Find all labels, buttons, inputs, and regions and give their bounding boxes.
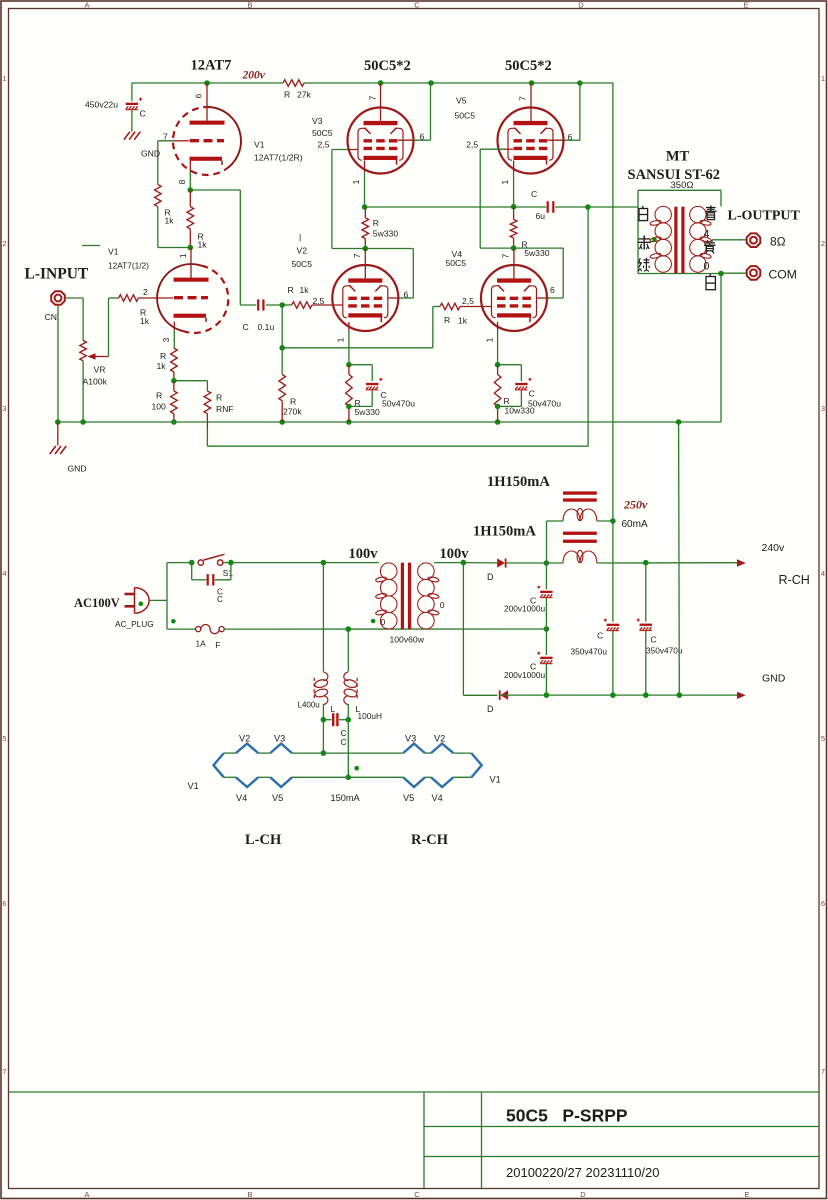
- svg-text:27k: 27k: [297, 90, 312, 100]
- svg-text:V5: V5: [272, 793, 283, 803]
- svg-text:50v470u: 50v470u: [382, 399, 415, 409]
- svg-text:200v: 200v: [242, 70, 266, 82]
- svg-text:CN: CN: [45, 312, 57, 322]
- svg-text:7: 7: [2, 1067, 6, 1076]
- svg-text:R: R: [288, 285, 294, 295]
- svg-text:100uH: 100uH: [358, 711, 382, 721]
- svg-text:350v470u: 350v470u: [571, 647, 608, 657]
- svg-text:F: F: [215, 640, 220, 650]
- svg-text:6: 6: [194, 93, 204, 98]
- svg-text:C: C: [414, 1190, 420, 1199]
- svg-text:C: C: [651, 635, 657, 645]
- svg-text:12AT7: 12AT7: [191, 58, 232, 74]
- svg-text:5w330: 5w330: [524, 248, 550, 258]
- svg-text:C: C: [531, 189, 537, 199]
- svg-text:450v22u: 450v22u: [85, 100, 118, 110]
- svg-text:R: R: [290, 397, 296, 407]
- svg-text:GND: GND: [141, 149, 160, 159]
- svg-text:50C5*2: 50C5*2: [505, 58, 552, 74]
- svg-text:4: 4: [2, 569, 6, 578]
- svg-text:4: 4: [821, 569, 825, 578]
- svg-text:R: R: [284, 90, 290, 100]
- svg-text:|: |: [299, 232, 301, 242]
- svg-text:A: A: [84, 1190, 89, 1199]
- svg-text:5: 5: [2, 734, 6, 743]
- svg-text:L-OUTPUT: L-OUTPUT: [728, 208, 801, 223]
- svg-text:1k: 1k: [198, 240, 208, 250]
- svg-text:C: C: [414, 1, 420, 10]
- svg-text:E: E: [743, 1, 748, 10]
- svg-text:2,5: 2,5: [318, 140, 330, 150]
- svg-text:C: C: [341, 737, 347, 747]
- svg-text:350v470u: 350v470u: [646, 646, 683, 656]
- svg-text:V4: V4: [432, 793, 443, 803]
- svg-text:1H150mA: 1H150mA: [473, 524, 536, 540]
- svg-text:2: 2: [2, 239, 6, 248]
- svg-text:D: D: [487, 704, 494, 714]
- svg-text:1k: 1k: [157, 361, 167, 371]
- svg-text:B: B: [247, 1, 252, 10]
- svg-text:R: R: [444, 315, 450, 325]
- svg-text:1: 1: [484, 337, 494, 342]
- svg-text:3: 3: [2, 404, 6, 413]
- svg-text:8: 8: [177, 179, 187, 184]
- svg-text:V1: V1: [188, 781, 199, 791]
- svg-text:B: B: [247, 1190, 252, 1199]
- svg-text:V1: V1: [254, 140, 265, 150]
- svg-text:R: R: [504, 396, 510, 406]
- svg-text:4: 4: [704, 229, 710, 241]
- svg-text:7: 7: [367, 95, 377, 100]
- svg-text:20100220/27 20231110/20: 20100220/27 20231110/20: [506, 1165, 660, 1180]
- svg-text:R-CH: R-CH: [411, 832, 449, 848]
- svg-text:7: 7: [501, 253, 511, 258]
- svg-text:1: 1: [2, 74, 6, 83]
- svg-text:C: C: [217, 594, 223, 604]
- svg-text:V2: V2: [239, 734, 250, 744]
- svg-text:7: 7: [517, 96, 527, 101]
- svg-text:200v1000u: 200v1000u: [504, 604, 545, 614]
- svg-text:7: 7: [163, 132, 168, 142]
- svg-text:150mA: 150mA: [331, 793, 361, 803]
- svg-text:V5: V5: [403, 793, 414, 803]
- svg-text:12AT7(1/2R): 12AT7(1/2R): [254, 153, 303, 163]
- svg-text:R: R: [373, 218, 379, 228]
- svg-text:6: 6: [2, 899, 6, 908]
- svg-text:0: 0: [440, 600, 445, 610]
- svg-text:2,5: 2,5: [462, 296, 474, 306]
- svg-text:50C5*2: 50C5*2: [364, 58, 411, 74]
- svg-text:V5: V5: [456, 96, 467, 106]
- svg-text:COM: COM: [769, 267, 797, 281]
- svg-text:2: 2: [143, 287, 148, 297]
- svg-text:V3: V3: [405, 734, 416, 744]
- svg-text:100v: 100v: [349, 546, 379, 562]
- svg-text:1k: 1k: [165, 216, 175, 226]
- svg-text:2,5: 2,5: [466, 139, 478, 149]
- svg-text:270k: 270k: [283, 407, 302, 417]
- svg-text:1k: 1k: [458, 316, 468, 326]
- svg-text:V1: V1: [108, 247, 119, 257]
- svg-text:50C5: 50C5: [455, 111, 476, 121]
- svg-text:AC100V: AC100V: [74, 596, 120, 610]
- svg-text:R-CH: R-CH: [779, 573, 810, 587]
- svg-text:100v: 100v: [440, 546, 470, 562]
- svg-text:L-INPUT: L-INPUT: [25, 265, 89, 282]
- svg-text:50C5: 50C5: [446, 258, 467, 268]
- svg-text:1: 1: [821, 74, 825, 83]
- svg-text:D: D: [487, 572, 494, 582]
- svg-text:1: 1: [351, 179, 361, 184]
- svg-text:100v60w: 100v60w: [390, 635, 425, 645]
- svg-text:6: 6: [404, 289, 409, 299]
- svg-text:3: 3: [821, 404, 825, 413]
- svg-text:100: 100: [152, 402, 167, 412]
- svg-text:AC_PLUG: AC_PLUG: [115, 619, 154, 629]
- svg-text:200v1000u: 200v1000u: [504, 670, 545, 680]
- svg-text:L: L: [331, 704, 336, 714]
- svg-text:1k: 1k: [300, 285, 310, 295]
- svg-text:50v470u: 50v470u: [528, 399, 561, 409]
- svg-text:R: R: [160, 351, 166, 361]
- svg-text:50C5: 50C5: [312, 128, 333, 138]
- svg-text:GND: GND: [68, 464, 87, 474]
- svg-text:L-CH: L-CH: [245, 832, 282, 848]
- svg-text:12AT7(1/2): 12AT7(1/2): [108, 261, 149, 271]
- svg-text:240v: 240v: [762, 542, 786, 554]
- svg-text:50C5 P-SRPP: 50C5 P-SRPP: [506, 1106, 628, 1126]
- svg-text:60mA: 60mA: [622, 519, 648, 530]
- svg-text:A100k: A100k: [83, 377, 108, 387]
- svg-text:0: 0: [381, 617, 386, 627]
- svg-text:GND: GND: [762, 673, 786, 685]
- svg-text:250v: 250v: [623, 498, 648, 512]
- svg-text:D: D: [578, 1, 584, 10]
- svg-text:A: A: [84, 1, 89, 10]
- svg-text:6: 6: [568, 132, 573, 142]
- svg-text:3: 3: [161, 337, 171, 342]
- svg-text:8Ω: 8Ω: [770, 234, 786, 248]
- svg-text:L400u: L400u: [298, 701, 320, 710]
- svg-text:C: C: [140, 109, 146, 119]
- svg-text:R: R: [216, 393, 222, 403]
- svg-text:V2: V2: [434, 734, 445, 744]
- svg-text:MT: MT: [666, 149, 690, 165]
- svg-text:6: 6: [420, 132, 425, 142]
- svg-text:V1: V1: [490, 775, 501, 785]
- svg-text:1A: 1A: [196, 639, 207, 649]
- svg-text:2: 2: [821, 239, 825, 248]
- svg-text:1: 1: [178, 253, 188, 258]
- svg-text:350Ω: 350Ω: [671, 180, 694, 191]
- svg-text:6: 6: [550, 285, 555, 295]
- svg-text:5w330: 5w330: [355, 407, 381, 417]
- svg-text:VR: VR: [94, 365, 106, 375]
- svg-text:5w330: 5w330: [373, 229, 399, 239]
- svg-text:R: R: [156, 391, 162, 401]
- svg-text:2,5: 2,5: [313, 296, 325, 306]
- svg-text:RNF: RNF: [216, 404, 234, 414]
- svg-text:V2: V2: [297, 246, 308, 256]
- svg-text:6u: 6u: [536, 211, 546, 221]
- svg-text:1k: 1k: [140, 316, 150, 326]
- svg-text:V3: V3: [312, 116, 323, 126]
- svg-text:50C5: 50C5: [292, 259, 313, 269]
- svg-text:C: C: [243, 322, 249, 332]
- svg-text:1: 1: [336, 337, 346, 342]
- svg-text:1H150mA: 1H150mA: [487, 474, 550, 490]
- svg-text:S1: S1: [223, 568, 234, 578]
- svg-text:0.1u: 0.1u: [258, 322, 275, 332]
- svg-text:D: D: [580, 1190, 586, 1199]
- svg-text:V3: V3: [274, 734, 285, 744]
- svg-text:7: 7: [821, 1067, 825, 1076]
- svg-text:1: 1: [500, 180, 510, 185]
- svg-text:0: 0: [704, 261, 710, 273]
- svg-text:V4: V4: [236, 793, 247, 803]
- svg-text:6: 6: [821, 899, 825, 908]
- svg-text:7: 7: [352, 253, 362, 258]
- svg-text:E: E: [744, 1190, 749, 1199]
- svg-text:5: 5: [821, 734, 825, 743]
- svg-text:C: C: [597, 631, 603, 641]
- svg-text:C: C: [529, 389, 535, 399]
